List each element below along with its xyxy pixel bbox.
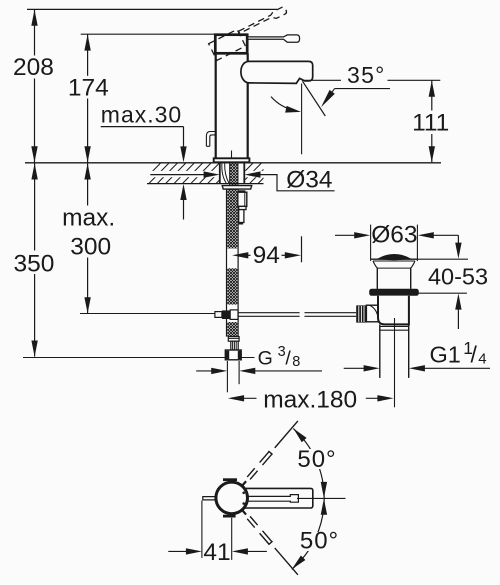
drain dome cap [379,255,410,260]
svg-text:max.30: max.30 [101,102,182,128]
G3/8 nut [225,350,241,360]
dimension 41 [168,501,267,560]
supply hose braid (crosshatch segments) [227,189,237,248]
pop-up rod guide at body left [206,132,215,147]
svg-text:max.180: max.180 [263,386,357,413]
drain flange [371,258,418,260]
spout [241,61,313,83]
crimp sleeve [231,341,238,350]
svg-text:Ø34: Ø34 [286,167,332,194]
dimension 40-53 [417,235,468,329]
ring top tab [223,478,237,481]
dashed lever at 50 deg up [239,419,300,488]
dimension 208 [31,9,37,162]
deck bottom line [147,183,264,185]
extension line hose end / pull rod (thin) [80,313,215,315]
G3/8 hose end fitting: ferrule [228,337,239,342]
svg-text:40-53: 40-53 [428,264,488,290]
50 deg label lower [299,532,340,551]
svg-text:8: 8 [292,354,300,370]
35 deg text underline leader [335,88,390,90]
dimension 350 [31,163,37,356]
deck hatching [140,163,287,184]
mounting nut [238,192,247,206]
pull rod stub (top view) [203,497,216,500]
drain centerline [394,318,396,407]
tailpipe thread lines [380,325,409,327]
mounting stud dark cap [238,190,245,192]
svg-text:350: 350 [14,250,55,277]
stud step [239,206,246,209]
extension line G3/8 level [23,357,255,359]
dimension 35 degrees: extension line from aerator [302,79,341,81]
spout vertical extension line [301,84,303,155]
faucet body right wall [247,53,249,158]
drain: O63 extension lines [370,225,372,259]
supply hose walls [226,189,228,336]
svg-text:208: 208 [13,54,54,81]
faucet centerline at base [231,151,233,163]
extension line top of faucet (208 reference) [27,8,277,10]
dimension O34: arrows at hole [150,174,205,176]
svg-text:41: 41 [203,539,230,566]
svg-text:50°: 50° [300,528,339,555]
mounting hole walls [219,163,221,184]
tailpipe walls [379,324,381,378]
svg-text:G: G [258,347,273,369]
lever and cap in raised position (dashed) [209,6,293,60]
svg-text:111: 111 [412,110,449,137]
hose bend wedge in shank [222,164,229,184]
dimension 94 [232,236,301,262]
faucet body ring (top view) [216,482,248,514]
ring bottom tab [223,515,236,518]
pull rod horizontal (double line with break) [238,313,356,317]
50 deg arc upper [293,429,324,499]
faucet body left wall [215,53,217,158]
svg-text:300: 300 [70,233,111,260]
cartridge cap (bold) [215,35,247,54]
O63 dimension arrows [335,232,458,238]
drain side outlet [366,305,378,322]
dimension max.30 (deck thickness) [101,127,187,220]
svg-text:94: 94 [253,242,280,269]
50 deg label upper [296,449,338,469]
svg-text:max.: max. [62,204,115,231]
drain lower body (bold) [378,296,409,325]
dimension max.300 (hose length) [84,163,90,313]
svg-text:/: / [285,347,291,369]
screw dots on ring [242,492,245,495]
stud lower [239,210,244,223]
rubber seal (black band) [369,289,419,296]
washer plate under deck [222,186,252,190]
deck top line [25,162,441,164]
lever handle (horizontal) [248,35,300,42]
G1 1/4 dimension [344,365,490,371]
top-view lever outline [243,488,313,508]
stud foot [239,223,243,225]
svg-text:G1: G1 [430,342,461,368]
svg-text:Ø63: Ø63 [371,222,417,249]
spout angle line 35deg [303,81,326,116]
threaded shank through deck (crosshatch) [230,163,238,186]
svg-text:/: / [471,342,478,368]
pull rod coupling at hose [215,312,222,318]
svg-text:4: 4 [478,351,486,368]
dimension 111 [429,81,435,163]
50 deg arc lower [292,499,324,570]
top-view lever slot [246,495,298,503]
drain neck walls [376,268,378,289]
35 deg leader arrow to angled line [324,89,335,104]
svg-text:174: 174 [68,74,109,101]
extension line top of lever pivot (174 reference) [81,33,216,35]
drain knurled knob [356,305,366,322]
G3/8 dimension [196,361,322,392]
dimension 174 [84,34,90,162]
dashed lever at 50 deg down [239,508,300,577]
dimension max.180 [228,395,394,401]
svg-text:50°: 50° [297,446,336,473]
svg-text:35°: 35° [347,62,386,88]
base plate [214,158,250,162]
lever centerline extension [297,497,346,499]
swivel arc with arrow [271,97,297,112]
